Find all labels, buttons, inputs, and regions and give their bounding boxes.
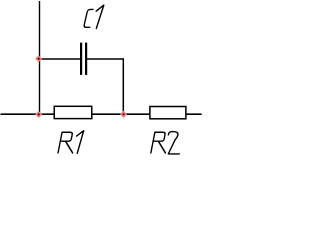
capacitor C1 bbox=[81, 43, 86, 75]
label R1 bbox=[58, 131, 84, 154]
node A bbox=[35, 55, 42, 62]
label C1 bbox=[84, 5, 104, 28]
node C bbox=[120, 111, 127, 118]
resistor R2 bbox=[150, 107, 186, 119]
resistor R1 bbox=[54, 106, 92, 118]
wire bbox=[39, 1, 41, 114]
label R2 bbox=[151, 132, 180, 154]
wire bbox=[1, 113, 202, 115]
wire bbox=[87, 59, 123, 114]
wire bbox=[40, 58, 81, 60]
node B bbox=[35, 111, 42, 118]
